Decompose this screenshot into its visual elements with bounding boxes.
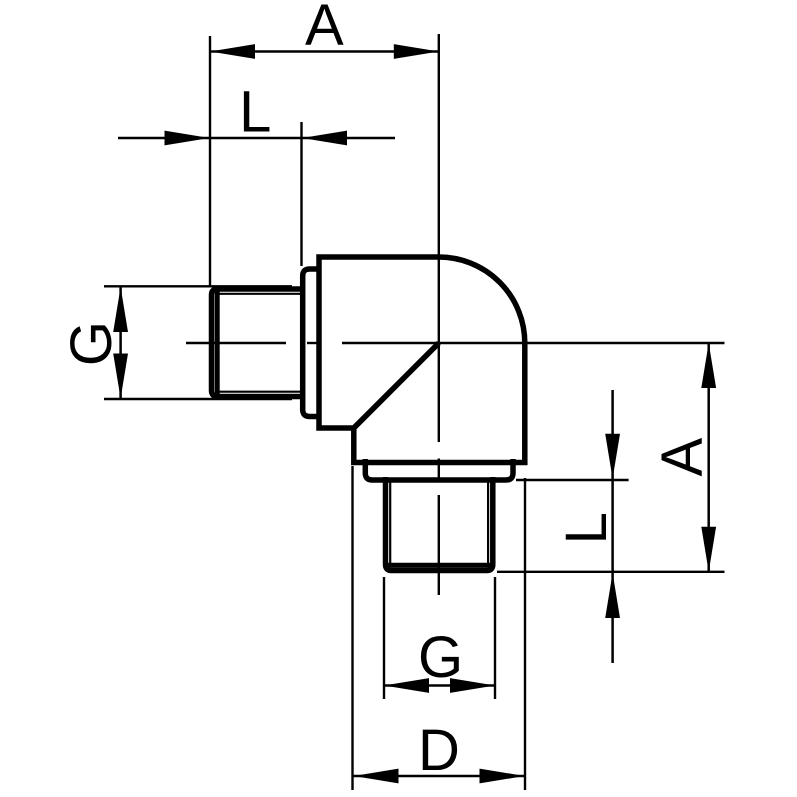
body outline [319, 257, 525, 463]
svg-text:A: A [305, 0, 344, 58]
dimension L right [554, 390, 620, 663]
dimension A top [210, 0, 439, 59]
dimension G bottom [384, 625, 495, 693]
left port thread crest [212, 289, 303, 397]
bottom D extension left [351, 466, 353, 790]
bottom port thread crest [386, 477, 493, 571]
dimension G left [59, 286, 292, 399]
extension line L right [300, 122, 302, 266]
svg-text:A: A [650, 438, 715, 477]
vertical centerline [438, 34, 440, 442]
horizontal centerline [186, 342, 286, 344]
bottom port thread root left [389, 478, 391, 565]
dimension D bottom [354, 718, 525, 783]
right extension bottom [497, 571, 725, 573]
dimension A right [650, 343, 716, 572]
svg-text:L: L [554, 512, 619, 544]
bottom port thread root right [487, 478, 489, 565]
left port thread root top [219, 293, 302, 295]
svg-text:G: G [418, 625, 463, 690]
bottom collar [365, 459, 513, 480]
right extension mid [516, 479, 629, 481]
svg-text:D: D [418, 718, 460, 783]
left port thread root bottom [219, 391, 302, 393]
left port chamfer [215, 290, 220, 397]
bottom G extension left [383, 577, 385, 699]
dimension L top [118, 80, 395, 146]
svg-text:G: G [59, 321, 124, 366]
miter diagonal [354, 343, 439, 428]
svg-text:L: L [239, 80, 271, 145]
bottom port chamfer [386, 563, 492, 568]
left flange [303, 269, 321, 417]
bottom D extension right [524, 478, 526, 790]
extension line port face [209, 36, 211, 286]
bottom G extension right [494, 577, 496, 699]
